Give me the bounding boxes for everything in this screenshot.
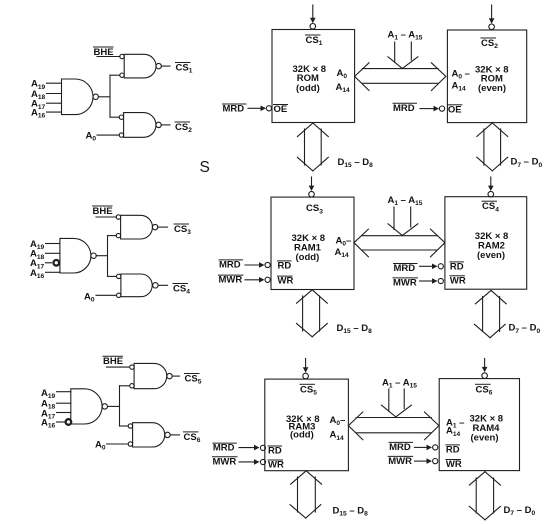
output bubble G6 (153, 283, 158, 288)
block ROM even (row1 right) (447, 30, 526, 123)
svg-text:MRD: MRD (223, 104, 245, 115)
label A0 (row1) (86, 131, 97, 143)
wire MRD arrow to OE (row1 right) (420, 106, 439, 112)
label MWR (row3 middle) (388, 456, 413, 467)
svg-text:WR: WR (268, 460, 284, 471)
label A19 (row1) (31, 79, 46, 91)
wire A17 to NAND (row3) (57, 412, 71, 414)
wire BHE to gate G2 (row1) (97, 56, 120, 58)
branch wire vertical (row3) (119, 386, 121, 426)
address bus arrow (row1) (355, 63, 446, 91)
wire branch to gate G6 upper input (row2) (108, 275, 117, 277)
input bubble G3 bottom (119, 133, 123, 137)
wire G9 output (row3) (170, 434, 179, 436)
label A17 (row2) (30, 258, 45, 270)
wire G3 output (row1) (161, 124, 170, 126)
label CS3 gate output (174, 224, 191, 236)
wire G7 output to branch (row3) (108, 405, 120, 407)
nand gate G3 (CS2 gate, row1) (124, 113, 156, 138)
wire BHE to gate G5 (row2) (96, 216, 116, 218)
svg-text:(even): (even) (478, 83, 506, 94)
bubble OE (row1 left) (266, 106, 271, 111)
label MWR (row2 middle) (393, 277, 418, 288)
data bus arrow (row3 right) (469, 472, 500, 520)
bubble RD (row2 right) (438, 264, 443, 269)
label BHE (row3) (103, 356, 123, 367)
wire branch to gate G9 upper input (row3) (120, 425, 129, 427)
label WR (row3 left block) (268, 460, 284, 471)
label CS1 gate output (176, 63, 193, 75)
label MWR (row3 far left) (213, 456, 238, 467)
wire A18 to NAND (row1) (47, 93, 62, 95)
nand gate G7 4-input (row3) (71, 389, 102, 424)
label 32Kx8 RAM1 (odd) (292, 233, 326, 263)
wire branch to gate G2 lower input (row1) (110, 74, 120, 76)
svg-text:S: S (200, 159, 210, 176)
label CS5 in block (300, 384, 317, 396)
label CS1 in block (306, 35, 323, 47)
svg-text:MWR: MWR (213, 456, 237, 467)
bubble RD (row2 left) (265, 262, 270, 267)
svg-text:WR: WR (450, 275, 466, 286)
nand gate G2 (CS1 gate, row1) (124, 54, 156, 78)
wire MRD arrow to RD (row3 right) (415, 445, 433, 451)
svg-text:MRD: MRD (213, 443, 235, 454)
output bubble G8 (167, 373, 172, 378)
svg-text:D15 – D8: D15 – D8 (337, 323, 373, 335)
label MWR (row2 far left) (219, 275, 244, 286)
nand gate G1 4-input (row1) (62, 79, 93, 115)
svg-text:RD: RD (278, 260, 292, 271)
label A16 (row1) (31, 107, 46, 119)
label RD (row2 right block) (450, 261, 464, 272)
CS2 select arrow into ROM even (489, 5, 495, 30)
output bubble G3 (156, 122, 161, 127)
svg-text:D15 – D8: D15 – D8 (333, 506, 369, 518)
data bus arrow (row2 right) (474, 290, 506, 337)
label 32Kx8 RAM3 (odd) (286, 414, 320, 441)
wire BHE to gate G8 (row3) (107, 366, 129, 368)
label WR (row3 right block) (446, 459, 462, 470)
label 32Kx8 ROM (odd) (293, 64, 327, 94)
A-bus drop wires (row3) (389, 389, 404, 411)
bubble WR (row3 right) (433, 459, 438, 464)
wire G4 output to branch (row2) (96, 255, 107, 257)
svg-text:MRD: MRD (393, 103, 415, 114)
wire MRD arrow to OE (row1 left) (248, 106, 266, 112)
label A16 (row2) (30, 268, 45, 280)
nand gate G9 (CS6 gate, row3) (133, 423, 165, 447)
svg-text:(even): (even) (471, 433, 499, 444)
wire A18 to NAND (row2) (46, 252, 60, 254)
svg-text:WR: WR (278, 276, 294, 287)
wire A18 to NAND (row3) (57, 402, 71, 404)
bubble OE (row1 right) (439, 106, 444, 111)
wire A0 to gate G9 (row3) (107, 443, 129, 445)
wire G2 output (row1) (161, 65, 170, 67)
label CS6 in block (476, 384, 493, 396)
bubble RD (row3 left) (260, 445, 265, 450)
wire MRD arrow to RD (row3 left) (239, 445, 260, 451)
inverter bubble on A16 input (row3) (66, 419, 72, 425)
svg-text:(odd): (odd) (290, 430, 314, 441)
svg-text:MRD: MRD (394, 263, 416, 274)
label CS5 gate output (185, 374, 202, 386)
branch wire vertical (row1) (109, 75, 111, 117)
input bubble G5 top (116, 215, 120, 219)
label A1-A15 (row2) (388, 195, 423, 207)
bubble RD (row3 right) (433, 445, 438, 450)
wire MWR arrow to WR (row3 left) (239, 459, 260, 465)
label A0 A14 (row1 left block) (336, 68, 351, 94)
label 32Kx8 ROM (even) (475, 64, 509, 94)
svg-text:MWR: MWR (393, 277, 417, 288)
output bubble G5 (152, 224, 157, 229)
label A1- A14 (row3 right block) (446, 418, 464, 438)
svg-text:D7 – D0: D7 – D0 (509, 323, 541, 335)
svg-text:(odd): (odd) (296, 252, 320, 263)
output bubble G4 (91, 253, 96, 258)
label A17 (row3) (41, 409, 56, 421)
label A0- A14 (row1 right block) (452, 69, 470, 93)
inverter bubble on A17 input (row2) (54, 260, 60, 266)
label A0 (row2) (84, 292, 95, 304)
svg-text:RD: RD (268, 446, 282, 457)
label D15-D8 (row3) (333, 506, 369, 518)
wire branch to gate G3 upper input (row1) (110, 116, 119, 118)
block RAM1 odd (row2 left) (271, 197, 354, 289)
output bubble G7 (102, 404, 107, 409)
wire MRD arrow to RD (row2 right) (420, 264, 438, 270)
label A1-A15 (row3) (382, 377, 417, 389)
output bubble G1 (93, 94, 98, 99)
input bubble G9 top (128, 424, 132, 428)
bubble WR (row3 left) (260, 459, 265, 464)
data bus arrow (row3 left) (290, 471, 322, 518)
label A18 (row3) (41, 398, 56, 410)
svg-text:BHE: BHE (93, 206, 113, 217)
label A18 (row2) (30, 249, 45, 261)
nand gate G8 (CS5 gate, row3) (134, 363, 167, 388)
CS6 select arrow into RAM4 (482, 359, 488, 379)
bubble WR (row2 left) (265, 277, 270, 282)
label MRD (row3 far left) (213, 443, 237, 454)
input bubble G8 top (130, 365, 134, 369)
label A0- A14 (row2 left block) (335, 236, 352, 260)
bubble WR (row2 right) (438, 278, 443, 283)
input bubble G6 bottom (117, 293, 121, 297)
wire A16 to NAND (row1) (47, 111, 62, 113)
wire A16 to bubble (row3) (57, 421, 65, 423)
label MRD (row3 middle) (389, 442, 413, 453)
wire MWR arrow to WR (row2 left) (245, 277, 265, 283)
wire G5 output (row2) (158, 226, 168, 228)
wire A19 to NAND (row3) (57, 391, 71, 393)
svg-text:RD: RD (446, 444, 460, 455)
svg-text:MRD: MRD (389, 442, 411, 453)
label CS6 gate output (184, 432, 201, 444)
label A16 (row3) (41, 418, 56, 430)
label MRD (row1 far left) (223, 104, 247, 115)
svg-text:D15 – D8: D15 – D8 (338, 157, 374, 169)
wire MWR arrow to WR (row3 right) (415, 458, 433, 464)
svg-text:D7 – D0: D7 – D0 (511, 157, 543, 169)
wire branch to gate G5 lower input (row2) (108, 235, 117, 237)
nand gate G5 (CS3 gate, row2) (121, 215, 153, 239)
output bubble G9 (165, 432, 170, 437)
label OE (row1 left block) (274, 104, 288, 115)
label BHE (row1) (94, 47, 114, 58)
label A1-A15 (row1) (388, 29, 423, 41)
data bus arrow (row2 left) (297, 290, 328, 337)
label RD (row3 left block) (268, 446, 282, 457)
wire A19 to NAND (row1) (47, 82, 62, 84)
data bus arrow (row1 left) (297, 123, 328, 171)
svg-text:D7 – D0: D7 – D0 (504, 505, 536, 517)
svg-text:MWR: MWR (219, 275, 243, 286)
label A0- A14 (row3 left block) (330, 415, 346, 442)
block RAM4 even (row3 right) (439, 379, 519, 471)
label OE (row1 right block) (448, 104, 462, 115)
svg-text:OE: OE (448, 104, 462, 115)
wire branch to gate G8 lower input (row3) (120, 385, 129, 387)
label D7-D0 (row1) (511, 157, 543, 169)
data bus arrow (row1 right) (477, 123, 508, 171)
label RD (row3 right block) (446, 444, 460, 455)
label RD (row2 left block) (278, 260, 292, 271)
label A0 (row3) (95, 439, 106, 451)
label BHE (row2) (93, 206, 113, 217)
wire A0 to gate G3 (row1) (97, 134, 119, 136)
wire A0 to gate G6 (row2) (96, 294, 116, 296)
address bus arrow (row3) (348, 412, 439, 440)
input bubble G8 bottom (130, 384, 134, 388)
label A17 (row1) (31, 99, 46, 111)
label CS4 in block (482, 201, 499, 213)
svg-text:RD: RD (450, 261, 464, 272)
label A18 (row1) (31, 89, 46, 101)
label 32Kx8 RAM4 (even) (470, 413, 504, 443)
A-bus drop wires (row2) (394, 207, 411, 230)
A-bus arrowhead V (row1) (388, 57, 418, 69)
svg-text:OE: OE (274, 104, 288, 115)
address bus arrow (row2) (354, 229, 445, 257)
label D15-D8 (row1) (338, 157, 374, 169)
input bubble G5 bottom (116, 233, 120, 237)
label 32Kx8 RAM2 (even) (475, 231, 509, 261)
svg-text:(odd): (odd) (296, 83, 320, 94)
input bubble G9 bottom (128, 442, 132, 446)
block ROM odd (row1 left) (272, 30, 355, 123)
wire A16 to NAND (row2) (46, 271, 60, 273)
svg-text:(even): (even) (477, 250, 505, 261)
block RAM2 even (row2 right) (445, 197, 527, 290)
CS4 select arrow into RAM2 (488, 177, 494, 197)
block RAM3 odd (row3 left) (265, 379, 349, 471)
A-bus drop wires (row1) (395, 42, 412, 63)
label WR (row2 left block) (278, 276, 294, 287)
CS3 select arrow into RAM1 (309, 177, 315, 197)
label D7-D0 (row3) (504, 505, 536, 517)
input bubble G2 bottom (120, 73, 124, 77)
label D15-D8 (row2) (337, 323, 373, 335)
A-bus arrowhead V (row3) (382, 405, 412, 417)
branch wire vertical (row2) (107, 236, 109, 277)
wire MRD arrow to RD (row2 left) (245, 262, 265, 268)
label A19 (row3) (41, 388, 56, 400)
svg-text:MRD: MRD (219, 259, 241, 270)
input bubble G6 top (117, 274, 121, 278)
wire G8 output (row3) (172, 375, 179, 377)
label CS2 in block (481, 38, 498, 50)
label CS4 gate output (173, 284, 190, 296)
svg-text:WR: WR (446, 459, 462, 470)
wire G1 output to branch (row1) (98, 96, 110, 98)
label MRD (row2 far left) (219, 259, 243, 270)
svg-text:MWR: MWR (388, 456, 412, 467)
label MRD (row2 middle) (394, 263, 418, 274)
label D7-D0 (row2) (509, 323, 541, 335)
wire A17 to NAND (row1) (47, 102, 62, 104)
nand gate G6 (CS4 gate, row2) (121, 274, 152, 297)
wire A17 to bubble (row2) (46, 262, 52, 264)
output bubble G2 (156, 63, 161, 68)
input bubble G2 top (120, 54, 124, 58)
label MRD (row1 middle) (393, 103, 417, 114)
svg-text:BHE: BHE (103, 356, 123, 367)
label A19 (row2) (30, 239, 45, 251)
wire A19 to NAND (row2) (46, 243, 60, 245)
CS1 select arrow into ROM odd (310, 5, 316, 29)
label WR (row2 right block) (450, 275, 466, 286)
wire G6 output (row2) (158, 284, 167, 286)
CS5 select arrow into RAM3 (303, 359, 309, 379)
nand gate G4 4-input (row2) (60, 238, 91, 273)
wire MWR arrow to WR (row2 right) (420, 278, 438, 284)
label CS3 in block (306, 203, 323, 215)
A-bus arrowhead V (row2) (388, 224, 418, 236)
label CS2 gate output (175, 122, 192, 134)
input bubble G3 top (119, 115, 123, 119)
